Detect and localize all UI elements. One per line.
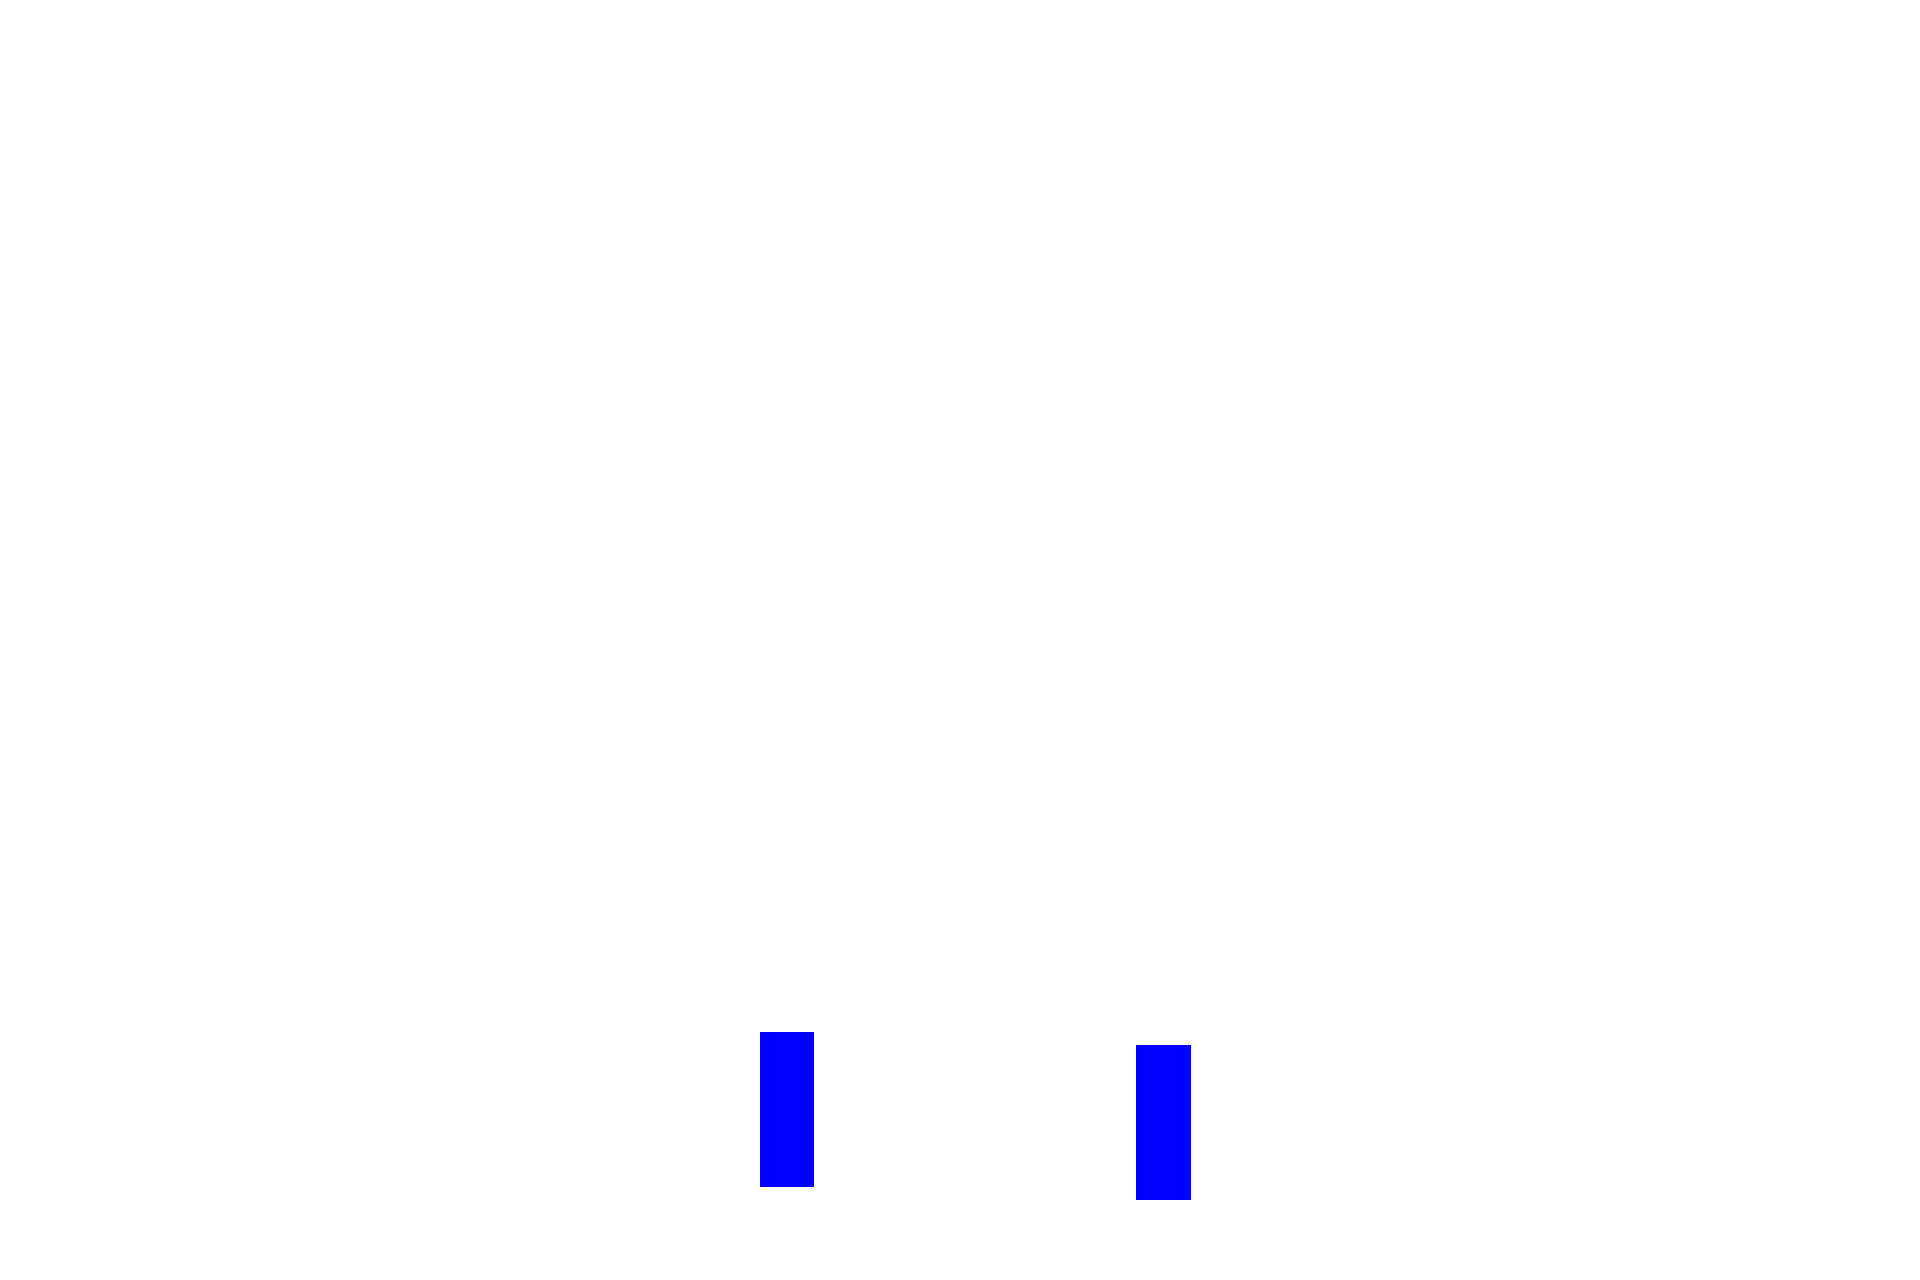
blue rectangle 2 (right bar) (1136, 1045, 1191, 1200)
blue rectangle 1 (left bar) (760, 1032, 814, 1187)
